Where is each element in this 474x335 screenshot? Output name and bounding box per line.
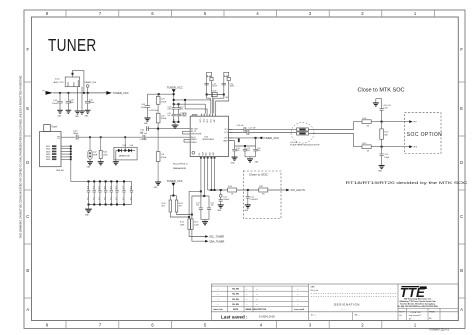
capacitor C-24 sda <box>204 196 211 220</box>
svg-text:XTL1: XTL1 <box>207 119 209 123</box>
svg-text:10n: 10n <box>98 198 100 201</box>
svg-text:P5: P5 <box>43 90 45 92</box>
svg-text:1: 1 <box>414 11 417 16</box>
svg-text:--: -- <box>297 299 299 301</box>
svg-text:3: 3 <box>309 11 312 16</box>
zone ticks left and right <box>24 82 465 298</box>
svg-text:GND: GND <box>87 167 92 169</box>
svg-text:C-11: C-11 <box>168 113 171 115</box>
connector pin marks <box>52 145 56 160</box>
SOC OPTION dashed box <box>405 113 442 154</box>
capacitor C-02 series <box>76 135 78 140</box>
junction dots on 5V wire <box>59 92 89 94</box>
capacitor C-17 series <box>247 130 249 135</box>
svg-text:GND: GND <box>213 151 215 155</box>
svg-text:2: 2 <box>361 11 364 16</box>
svg-text:C-34: C-34 <box>103 186 105 189</box>
svg-text:R-09: R-09 <box>224 76 228 78</box>
wire pin drops below IC <box>201 159 215 196</box>
main 5V wire <box>53 92 106 94</box>
ground under module pin 3 <box>79 111 85 114</box>
svg-text:B: B <box>26 268 29 273</box>
svg-text:GND3: GND3 <box>46 151 50 153</box>
svg-text:E: E <box>26 106 29 111</box>
wire stub bus left pins <box>182 131 186 142</box>
svg-text:4: 4 <box>209 115 210 117</box>
svg-text:--: -- <box>297 294 299 296</box>
svg-text:R-11: R-11 <box>180 222 184 224</box>
inductor L-02 shunt <box>88 137 92 161</box>
capacitor C-04 polarized <box>66 93 71 110</box>
svg-text:TUNER_5V0: TUNER_5V0 <box>84 82 97 84</box>
svg-text:C-31: C-31 <box>86 186 88 189</box>
IC top pin labels <box>200 118 216 122</box>
svg-text:C-14: C-14 <box>230 83 234 85</box>
ground R-01 <box>98 162 104 165</box>
svg-text:--: -- <box>246 294 248 296</box>
capacitor C-14 <box>222 83 226 85</box>
svg-text:1nF: 1nF <box>109 198 111 201</box>
svg-text:C-36: C-36 <box>115 186 117 189</box>
svg-text:CAP: CAP <box>213 119 216 122</box>
vcc rail 2 <box>174 104 206 113</box>
wire vcc down <box>173 93 175 105</box>
wire cap bus bottom <box>89 204 132 206</box>
svg-text:SCL: SCL <box>199 152 201 155</box>
svg-text:GND6: GND6 <box>46 159 50 161</box>
svg-text:LG:: LG: <box>399 315 402 317</box>
svg-text:100nF: 100nF <box>52 103 58 105</box>
svg-text:--: -- <box>297 304 299 306</box>
svg-text:R-12: R-12 <box>194 222 198 224</box>
svg-text:100pF: 100pF <box>73 133 79 135</box>
svg-text:F: F <box>26 47 29 52</box>
svg-text:100R: 100R <box>194 224 199 226</box>
capacitor C-18 <box>232 146 236 157</box>
svg-text:100n: 100n <box>257 150 261 152</box>
svg-text:2: 2 <box>361 323 364 328</box>
svg-text:R-20: R-20 <box>384 132 388 134</box>
svg-text:AGC+7.5V: AGC+7.5V <box>54 81 65 84</box>
zone numbers bottom <box>46 323 417 328</box>
svg-text:10n: 10n <box>103 198 105 201</box>
svg-text:0R: 0R <box>367 125 370 127</box>
svg-text:SMA A0603R: SMA A0603R <box>173 167 186 170</box>
svg-text:R-18: R-18 <box>362 118 366 120</box>
svg-text:GND: GND <box>75 116 80 118</box>
svg-text:470uH: 470uH <box>161 157 167 159</box>
ground L chain <box>155 182 161 185</box>
connector J-01 Tuner <box>40 125 61 167</box>
wire to SCL arrow <box>189 230 205 242</box>
svg-text:R-08: R-08 <box>207 76 211 78</box>
svg-text:C-09: C-09 <box>168 107 172 109</box>
wire rf 2 <box>78 136 142 138</box>
node dot on loop <box>72 73 74 75</box>
svg-text:C-37: C-37 <box>122 186 124 189</box>
svg-text:100n: 100n <box>236 150 240 152</box>
svg-text:TUNER_VCC: TUNER_VCC <box>263 136 279 140</box>
wire AGC line <box>208 189 228 191</box>
zone ticks bottom <box>66 321 382 329</box>
IC bottom pin labels <box>199 151 215 155</box>
svg-text:SH.: --: SH.: -- <box>355 315 361 317</box>
ground C-05 <box>85 110 91 113</box>
svg-text:TUNER_VCC: TUNER_VCC <box>113 91 129 95</box>
svg-text:10n: 10n <box>168 115 171 117</box>
junction dots IF rails <box>381 121 383 123</box>
ferrite bead L-03 <box>297 128 309 131</box>
svg-text:100nF: 100nF <box>230 85 235 87</box>
capacitor C-03 <box>57 93 62 110</box>
svg-text:1: 1 <box>206 115 207 117</box>
input arrow P5 <box>46 91 54 95</box>
pin IF N arrow <box>409 145 412 148</box>
svg-text:AGC: AGC <box>205 151 208 155</box>
svg-text:C-15: C-15 <box>384 154 388 156</box>
power arrow TUNER_VCC right <box>259 137 262 140</box>
ground diode box <box>115 151 117 162</box>
wire rail y94 <box>147 93 173 95</box>
wire IC supply row <box>147 128 186 130</box>
wire xtal drops <box>207 95 229 114</box>
svg-text:A4: A4 <box>429 317 431 320</box>
capacitor C-38 <box>130 181 133 204</box>
ground C-06 <box>144 118 150 121</box>
svg-text:AGND: AGND <box>192 114 198 117</box>
svg-text:GND5: GND5 <box>46 157 50 159</box>
svg-text:GND4: GND4 <box>46 154 50 156</box>
title block outline <box>211 284 458 321</box>
wire connector gnd bus <box>61 146 71 181</box>
zone letters left <box>26 47 29 312</box>
svg-text:IF_N: IF_N <box>224 132 228 134</box>
arrow TUNER_VCC out <box>106 91 112 95</box>
wire IF pair to fan <box>309 122 363 147</box>
svg-text:+: + <box>65 99 66 101</box>
resistor R-09 branch <box>224 72 229 94</box>
svg-text:GND_A4: GND_A4 <box>56 169 64 172</box>
svg-text:--: -- <box>246 299 248 301</box>
ground C-04 <box>66 110 72 113</box>
wire cap bus top <box>71 180 132 182</box>
svg-text:1000pF: 1000pF <box>223 199 229 201</box>
svg-text:VCC1: VCC1 <box>200 118 202 122</box>
svg-text:GND: GND <box>378 171 383 173</box>
svg-text:10uF: 10uF <box>70 102 75 104</box>
wire scl sda feeds <box>189 191 204 219</box>
svg-text:C-10: C-10 <box>180 107 184 109</box>
resistor R-03 pullup <box>169 200 172 212</box>
svg-text:1: 1 <box>414 323 417 328</box>
module A-01 tuner AGC block <box>65 77 80 87</box>
svg-text:0.1uF: 0.1uF <box>383 107 387 109</box>
capacitor C-15 bottom to ground <box>380 147 384 166</box>
svg-text:D: D <box>460 160 463 165</box>
rf out pin <box>57 136 60 138</box>
svg-text:Index-Lab: Index-Lab <box>213 309 223 311</box>
resistor R-01 shunt <box>99 137 102 161</box>
svg-text:R-04: R-04 <box>179 203 183 205</box>
svg-text:RG.??:: RG.??: <box>399 311 405 313</box>
ground decoupling <box>174 121 179 123</box>
svg-text:R-05: R-05 <box>228 186 232 188</box>
svg-text:C-32: C-32 <box>92 186 94 189</box>
svg-text:F: F <box>460 47 463 52</box>
capacitor C-31 <box>87 181 90 204</box>
capacitor C-20 <box>245 146 258 157</box>
svg-text:10uF: 10uF <box>247 150 251 152</box>
svg-text:1nF: 1nF <box>86 198 88 201</box>
svg-text:only memmo??: only memmo?? <box>409 315 421 317</box>
svg-text:B: B <box>460 268 463 273</box>
svg-text:- - -: - - - <box>341 308 345 311</box>
resistor R-12 series sda <box>191 219 193 230</box>
zone numbers top <box>46 11 417 16</box>
wire rf <box>61 136 75 138</box>
svg-text:R-19: R-19 <box>362 143 366 145</box>
resistor R-04 pullup <box>175 200 178 212</box>
svg-text:C-05 1uF: C-05 1uF <box>140 139 147 141</box>
svg-text:IM_IN: IM_IN <box>191 137 196 139</box>
capacitor C-06 <box>145 94 150 117</box>
pullup rail <box>170 196 176 201</box>
svg-text:DATE: DATE <box>233 308 239 311</box>
svg-text:4K7: 4K7 <box>162 206 165 208</box>
svg-text:A: A <box>26 307 29 312</box>
svg-text:L-02: L-02 <box>93 152 97 154</box>
svg-text:U-01: U-01 <box>204 136 209 138</box>
svg-text:THIS DRAWING CANNOT BE COMMUNI: THIS DRAWING CANNOT BE COMMUNICATED OR C… <box>19 75 23 238</box>
vcc rail 1 <box>174 100 211 114</box>
svg-text:1nF: 1nF <box>92 198 94 201</box>
svg-text:SCL_TUNER: SCL_TUNER <box>209 236 224 239</box>
svg-text:CREATED: CREATED <box>410 311 422 314</box>
svg-text:VCC: VCC <box>224 138 228 140</box>
svg-text:SOC OPTION: SOC OPTION <box>407 132 442 138</box>
resistor R-19 <box>362 145 371 149</box>
svg-text:GND: GND <box>209 151 211 155</box>
svg-text:7: 7 <box>99 323 102 328</box>
junction dots rf <box>89 136 126 138</box>
svg-text:IF P: IF P <box>413 122 417 124</box>
svg-text:C-16 1uF: C-16 1uF <box>237 125 244 127</box>
svg-text:100nF: 100nF <box>212 85 217 87</box>
svg-text:Close to MTK SOC: Close to MTK SOC <box>358 88 405 94</box>
svg-text:GND: GND <box>231 162 236 164</box>
svg-text:C: C <box>26 214 29 219</box>
svg-text:1K: 1K <box>231 194 234 196</box>
svg-text:100pF: 100pF <box>384 157 389 159</box>
svg-text:---: --- <box>256 299 258 301</box>
ground under module pin 2 <box>75 111 81 114</box>
capacitor C-34 <box>104 181 107 204</box>
svg-text:100R: 100R <box>180 224 185 226</box>
wire pins to ground <box>78 87 83 111</box>
svg-text:RF_2P: RF_2P <box>191 131 196 133</box>
svg-text:D: D <box>26 160 29 165</box>
svg-text:R-01: R-01 <box>103 152 107 154</box>
ground i2c caps <box>201 219 209 221</box>
svg-text:---: --- <box>256 304 258 306</box>
wire loop above module <box>73 71 84 93</box>
inductor L-11 <box>156 152 160 182</box>
svg-text:--: -- <box>217 294 219 296</box>
TTE address <box>397 298 437 308</box>
svg-text:GND: GND <box>58 116 63 118</box>
svg-text:*PLACE*THESE*ON/15/2N.5/OUTPUT: *PLACE*THESE*ON/15/2N.5/OUTPUT* <box>290 144 320 147</box>
svg-text:XTL2: XTL2 <box>211 119 213 123</box>
capacitor C-37 <box>122 181 125 204</box>
decoupling capacitor C-09 <box>172 104 176 122</box>
svg-text:SEE :: SEE : <box>311 287 317 289</box>
svg-text:A: A <box>460 307 463 312</box>
ferrite bead L-04 <box>297 132 309 135</box>
svg-text:SDA_TUNER: SDA_TUNER <box>209 240 224 243</box>
capacitor C-32 <box>93 181 96 204</box>
svg-text:C-19: C-19 <box>247 148 251 150</box>
svg-text:SDA: SDA <box>201 152 204 155</box>
svg-text:7: 7 <box>99 11 102 16</box>
svg-text:1nF: 1nF <box>122 198 124 201</box>
svg-text:GND: GND <box>255 162 260 164</box>
bottom right cells <box>353 308 459 320</box>
svg-text:C-35: C-35 <box>109 186 111 189</box>
revision table text <box>213 289 304 312</box>
svg-text:66R: 66R <box>384 134 388 136</box>
revision table <box>211 286 308 312</box>
svg-text:RG-NN: RG-NN <box>232 299 239 301</box>
resistor R-20 shunt <box>381 122 383 147</box>
svg-text:4: 4 <box>256 11 259 16</box>
resistor R-06 xtal <box>207 94 224 96</box>
svg-text:0R: 0R <box>262 194 265 196</box>
svg-text:IF N: IF N <box>413 147 417 149</box>
capacitor C-01 series to IC <box>143 135 145 140</box>
svg-text:C-24: C-24 <box>210 203 214 205</box>
resistor R-08 branch <box>207 72 212 94</box>
svg-text:---: --- <box>256 294 258 296</box>
diode D-01 ESD pair <box>114 137 137 160</box>
svg-text:8: 8 <box>46 11 49 16</box>
svg-text:C-03: C-03 <box>53 100 57 102</box>
svg-text:C-20: C-20 <box>257 148 261 150</box>
svg-text:R-03: R-03 <box>162 203 166 205</box>
svg-text:C-08: C-08 <box>225 97 229 99</box>
svg-text:BY:: BY: <box>409 318 412 320</box>
svg-text:---: --- <box>256 289 258 291</box>
svg-text:5: 5 <box>204 11 207 16</box>
capacitor C-13 <box>204 83 208 85</box>
svg-text:Tuner: Tuner <box>51 126 57 129</box>
svg-text:DESIGNATION: DESIGNATION <box>334 302 360 306</box>
svg-text:TUNER_VCC: TUNER_VCC <box>167 85 183 89</box>
svg-text:GNDR1: GNDR1 <box>191 139 197 141</box>
ground L-02 <box>87 162 93 165</box>
svg-text:GNDR4: GNDR4 <box>191 142 197 144</box>
wire pullups to nets <box>170 212 192 217</box>
capacitor C-22 <box>246 190 250 205</box>
IC right pin stubs <box>229 129 233 140</box>
svg-text:Last modif: Last modif <box>294 308 304 311</box>
pin IF P arrow <box>409 120 412 123</box>
capacitor C-19 <box>243 146 247 157</box>
designation / see box <box>311 287 320 292</box>
svg-text:RF_2GM: RF_2GM <box>191 128 198 130</box>
svg-text:RG-NN: RG-NN <box>232 294 239 296</box>
arrow SCL_TUNER <box>205 235 208 238</box>
svg-text:Close to SOC: Close to SOC <box>249 173 269 177</box>
svg-text:Last saved :: Last saved : <box>221 314 248 319</box>
zone ticks top <box>66 10 434 17</box>
wire rail 3 <box>185 101 207 114</box>
resistor R-11 series scl <box>188 219 190 230</box>
capacitor C-33 <box>98 181 101 204</box>
ground caps row <box>88 205 90 209</box>
svg-text:GNDP: GNDP <box>223 140 228 142</box>
svg-text:10nF/50V: 10nF/50V <box>250 199 258 201</box>
svg-text:470uH: 470uH <box>161 118 167 120</box>
svg-text:MXL661-AG2: MXL661-AG2 <box>203 138 214 141</box>
svg-text:--: -- <box>246 289 248 291</box>
svg-text:C-17 1uF: C-17 1uF <box>249 127 256 129</box>
svg-text:6: 6 <box>151 323 154 328</box>
svg-text:tuner: tuner <box>55 78 60 81</box>
svg-text:C-18: C-18 <box>236 148 240 150</box>
svg-text:15p: 15p <box>196 205 199 207</box>
svg-text:0R: 0R <box>367 150 370 152</box>
svg-text:Placed RT01 in: Placed RT01 in <box>173 164 189 166</box>
polarized cap mark <box>238 138 240 142</box>
svg-text:4: 4 <box>260 323 263 328</box>
svg-text:RG_Line: RG_Line <box>311 290 320 292</box>
svg-text:C-08 100nF: C-08 100nF <box>149 110 159 112</box>
svg-text:TUNER_VCC: TUNER_VCC <box>167 179 183 183</box>
capacitor C-16 series <box>244 127 246 132</box>
ground C-03 <box>57 110 63 113</box>
svg-text:--: -- <box>217 299 219 301</box>
dashed box Close to SOC <box>243 171 281 219</box>
capacitor C-35 <box>110 181 113 204</box>
svg-text:--: -- <box>217 289 219 291</box>
IC top pin stubs <box>202 114 216 117</box>
svg-text:IF_P: IF_P <box>224 129 227 131</box>
svg-text:100n: 100n <box>168 109 172 111</box>
svg-text:5-f-2004_14:38: 5-f-2004_14:38 <box>259 316 275 318</box>
svg-text:1nF: 1nF <box>129 198 131 201</box>
inductor L-09 <box>156 94 160 113</box>
decoupling capacitor C-10 <box>176 104 180 122</box>
wire IF_N <box>229 132 248 134</box>
svg-text:--: -- <box>217 304 219 306</box>
svg-text:L-10: L-10 <box>161 115 165 117</box>
svg-text:PHSM: PHSM <box>429 311 435 313</box>
capacitor C-36 <box>115 181 118 204</box>
svg-text:C-23: C-23 <box>196 203 200 205</box>
svg-text:R-07: R-07 <box>259 186 263 188</box>
svg-text:ICP_AGC IN: ICP_AGC IN <box>291 189 305 192</box>
svg-text:10n: 10n <box>115 198 117 201</box>
svg-text:470uH: 470uH <box>161 101 167 103</box>
svg-text:R-06: R-06 <box>213 91 217 93</box>
svg-text:4K7: 4K7 <box>179 206 182 208</box>
svg-text:--: -- <box>246 304 248 306</box>
capacitor C-23 scl <box>199 191 203 219</box>
svg-text:VREG/VTUNE: VREG/VTUNE <box>191 134 201 136</box>
TTE logo <box>400 285 427 300</box>
svg-text:C-13: C-13 <box>212 83 216 85</box>
svg-text:RG-NN: RG-NN <box>232 289 239 291</box>
